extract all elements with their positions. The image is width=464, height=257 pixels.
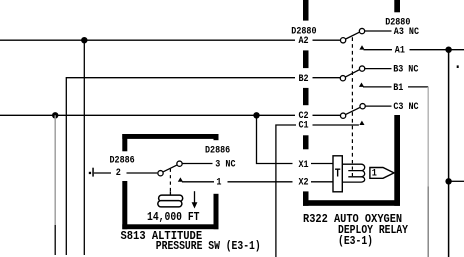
S813 box bottom edge bbox=[122, 224, 218, 229]
switch S1B common contact bbox=[340, 76, 345, 81]
relay K1 coil box bbox=[333, 156, 342, 192]
stray dot bbox=[457, 65, 459, 68]
svg-text:X2: X2 bbox=[299, 178, 309, 189]
contact A1 NO triangle bbox=[359, 45, 364, 49]
off-unit terminal bar for pin 2 bbox=[92, 168, 94, 177]
unit left boundary bus segment 4 bbox=[303, 135, 309, 149]
unit left boundary bus segment 3 bbox=[303, 88, 309, 105]
linkage dashes over coil bbox=[351, 160, 353, 179]
wire to right edge from lower junction bbox=[449, 180, 464, 182]
wire C1 left segment and drop off page bbox=[276, 125, 296, 257]
aneroid bellows upper capsule bbox=[159, 195, 183, 201]
node A2 junction bbox=[81, 37, 87, 43]
wire A2 pin to switch common bbox=[313, 39, 341, 41]
wire gray drop from B1 upper bbox=[427, 87, 429, 187]
unit bottom boundary bbox=[303, 200, 400, 206]
unit left boundary bus segment 2 bbox=[303, 50, 309, 68]
wire B2 feed with corner bbox=[66, 78, 295, 255]
S813 box right edge lower bbox=[214, 194, 219, 229]
wire C3 NC stub bbox=[365, 105, 391, 107]
switch S1C common contact bbox=[340, 113, 345, 118]
wire A1 stub to label bbox=[364, 49, 393, 51]
svg-text:B2: B2 bbox=[299, 74, 309, 85]
switch S813 NC contact bbox=[177, 161, 182, 166]
unit left boundary bus segment 1 bbox=[303, 0, 309, 21]
svg-text:D2886: D2886 bbox=[205, 145, 230, 156]
wire C2 pin to switch common bbox=[313, 114, 341, 116]
switch S1A arm to NC bbox=[346, 32, 360, 39]
wire pin 1 stub inside bbox=[182, 181, 214, 183]
svg-text:D2886: D2886 bbox=[110, 155, 135, 166]
wire vertical drop from A1 junction bbox=[448, 50, 450, 257]
switch S1C arm to NC bbox=[346, 107, 360, 114]
wire A3 NC stub bbox=[365, 30, 392, 32]
wire B1 to corner bbox=[408, 86, 428, 88]
wire gray drop from C2 junction bbox=[54, 115, 56, 225]
svg-text:A2: A2 bbox=[299, 36, 309, 47]
flag pointer 1 bbox=[370, 168, 394, 179]
wire X2 to relay coil bbox=[311, 181, 334, 183]
svg-text:C3 NC: C3 NC bbox=[393, 102, 418, 113]
switch S1B arm to NC bbox=[346, 70, 360, 77]
switch S813 common contact bbox=[158, 171, 163, 176]
svg-text:A1: A1 bbox=[395, 45, 405, 56]
svg-text:X1: X1 bbox=[299, 160, 309, 171]
relay coil winding bbox=[342, 164, 364, 182]
svg-text:3 NC: 3 NC bbox=[215, 160, 235, 171]
wire B1 stub to label bbox=[363, 86, 392, 88]
node C2 junction right bbox=[253, 112, 259, 118]
wire X2 feed from S813 pin 1 bbox=[228, 181, 293, 183]
svg-text:B3 NC: B3 NC bbox=[393, 64, 418, 75]
contact pin 1 NO triangle bbox=[178, 177, 183, 181]
S813 box right edge upper bbox=[214, 134, 219, 140]
wire black lower part of left gray drop bbox=[54, 225, 56, 255]
actuation down arrow head bbox=[192, 202, 198, 208]
node A1 junction bbox=[445, 47, 451, 53]
off-unit terminal dot for pin 2 bbox=[89, 172, 91, 174]
unit right boundary bus segment 1 bbox=[394, 0, 400, 12]
svg-text:14,000 FT: 14,000 FT bbox=[147, 210, 200, 224]
svg-text:PRESSURE SW (E3-1): PRESSURE SW (E3-1) bbox=[156, 239, 261, 253]
unit left boundary bus segment 5 bbox=[303, 191, 309, 205]
switch S1B NC contact bbox=[359, 66, 364, 71]
S813 box left edge lower bbox=[122, 181, 127, 229]
mechanical linkage dashed line bbox=[351, 37, 353, 158]
wire pin 2 stub outside bbox=[94, 172, 111, 174]
svg-text:2: 2 bbox=[116, 168, 121, 179]
wire B3 NC stub bbox=[365, 68, 392, 70]
svg-text:A3 NC: A3 NC bbox=[394, 27, 419, 38]
wire C2 feed from left edge bbox=[0, 114, 295, 116]
bellows stem bbox=[169, 191, 171, 195]
actuation down arrow shaft bbox=[194, 191, 196, 203]
svg-text:T: T bbox=[335, 167, 341, 181]
wire vertical drop from A2 junction bbox=[83, 40, 85, 255]
wire B2 pin to switch common bbox=[313, 77, 341, 79]
switch linkage dashed line bbox=[169, 169, 171, 192]
S813 box top edge bbox=[122, 134, 218, 139]
switch S1C NC contact bbox=[360, 104, 365, 109]
node lower right junction bbox=[445, 178, 451, 184]
svg-text:C1: C1 bbox=[299, 121, 309, 132]
wire A1 to right edge bbox=[410, 49, 464, 51]
switch S1A NC contact bbox=[359, 28, 364, 33]
unit right boundary bus segment 2 bbox=[394, 115, 400, 206]
svg-text:1: 1 bbox=[372, 169, 377, 180]
svg-text:1: 1 bbox=[216, 177, 221, 188]
wire gray drop from B1 lower bbox=[427, 187, 429, 257]
wire C1 from triangle to label bbox=[313, 124, 359, 126]
contact B1 NO triangle bbox=[359, 83, 364, 87]
node C2 junction left bbox=[52, 112, 58, 118]
wire X1 to relay coil bbox=[311, 163, 334, 165]
svg-text:B1: B1 bbox=[393, 83, 403, 94]
wire pin 2 to switch common bbox=[127, 172, 158, 174]
svg-text:(E3-1): (E3-1) bbox=[338, 234, 373, 248]
aneroid bellows lower capsule bbox=[158, 201, 182, 207]
wire pin 3 stub bbox=[182, 163, 212, 165]
S813 box left edge upper bbox=[122, 134, 127, 151]
wire drop from C2 junction to X1 bbox=[257, 115, 293, 163]
switch S1A common contact bbox=[340, 38, 345, 43]
contact C1 NO triangle bbox=[359, 121, 364, 125]
switch S813 arm bbox=[163, 165, 177, 172]
wire A2 feed from left edge bbox=[0, 39, 295, 41]
